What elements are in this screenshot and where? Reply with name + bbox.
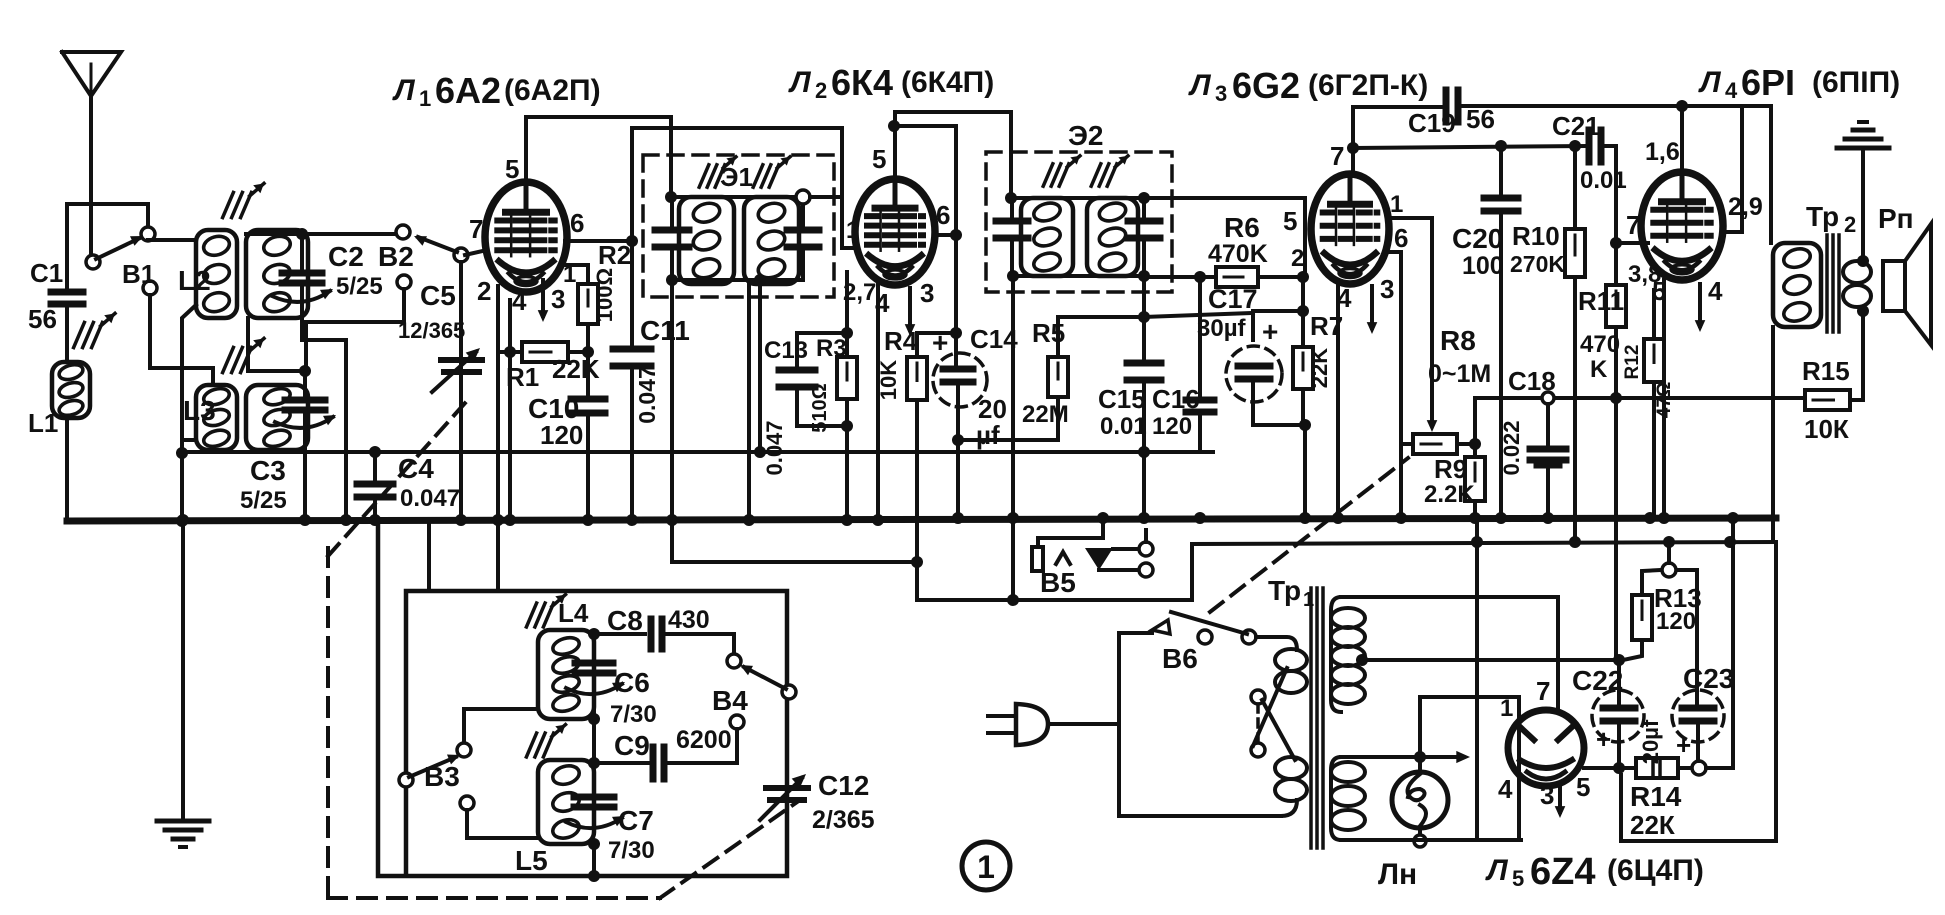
wire B3 upper throw — [464, 709, 538, 743]
Э1 left capacitor — [655, 227, 689, 234]
wire R7 bottom to bus — [1303, 425, 1307, 517]
svg-text:0~1M: 0~1M — [1428, 360, 1491, 388]
svg-text:C7: C7 — [618, 805, 654, 836]
resistor R5 22M — [1058, 317, 1142, 357]
Э1 top wire — [671, 195, 803, 199]
wire tap to tube2 grid — [810, 195, 842, 199]
svg-text:1: 1 — [419, 86, 431, 111]
speaker box and horn — [1883, 261, 1905, 311]
svg-text:30µf: 30µf — [1197, 315, 1247, 342]
wire L2 primary bottom — [182, 305, 196, 453]
svg-text:2: 2 — [1844, 212, 1856, 237]
wire L1 to bus — [65, 418, 69, 521]
pin 4 heater arrow — [1698, 284, 1702, 326]
junction L4 bottom — [588, 713, 600, 725]
switch B6 — [1198, 630, 1212, 644]
resistor R15 10K — [1805, 390, 1850, 410]
svg-text:5/25: 5/25 — [240, 487, 287, 514]
Э2 right capacitor — [1128, 218, 1160, 225]
wire C11 bottom — [630, 368, 634, 521]
pilot lamp Лн — [1392, 772, 1448, 828]
wire Tp2 bottom down — [1771, 327, 1775, 542]
pin 5 wire top — [524, 117, 528, 182]
capacitor C16 — [1198, 277, 1202, 398]
hatch arrow L4 — [526, 603, 536, 627]
svg-text:6К4: 6К4 — [831, 62, 893, 103]
pin1-4 heater wire — [1420, 697, 1519, 839]
svg-text:120: 120 — [540, 420, 583, 450]
svg-text:C3: C3 — [250, 455, 286, 486]
svg-text:3: 3 — [551, 284, 565, 314]
capacitor C2 trimmer — [300, 234, 304, 271]
Tp1 primary upper coil — [1275, 649, 1307, 671]
wire C14 bottom to bus — [956, 384, 960, 521]
svg-text:R3: R3 — [816, 335, 847, 362]
wire antenna branch — [67, 204, 148, 228]
resistor R1 22K — [508, 300, 512, 352]
svg-text:Тр: Тр — [1806, 201, 1839, 232]
wire bus drop right — [1731, 517, 1735, 768]
Э2 left capacitor — [996, 218, 1028, 225]
dashed gang diagonal to C12 — [660, 800, 800, 898]
dashed gang vertical — [326, 548, 330, 898]
grid line to C21 — [1353, 146, 1585, 148]
capacitor C1 — [51, 289, 83, 296]
B+ wires right loop — [1706, 766, 1733, 770]
trimmer C7 — [588, 757, 600, 769]
svg-text:C12: C12 — [818, 770, 869, 801]
capacitor C22 — [1592, 690, 1644, 742]
svg-text:+: + — [1676, 730, 1691, 760]
dashed link B6 to R8 — [1210, 458, 1408, 612]
heater line with arrow — [1341, 755, 1458, 759]
wire R5 bottom — [958, 397, 1058, 440]
svg-text:Л: Л — [1698, 66, 1722, 99]
tube2 pin lines to bus — [747, 284, 751, 520]
wire pin2 to grid line — [1301, 277, 1305, 311]
svg-text:4: 4 — [1498, 774, 1513, 804]
svg-text:C15: C15 — [1098, 384, 1146, 414]
hatch arrows Э1 — [699, 165, 709, 187]
svg-text:Л: Л — [1485, 854, 1509, 887]
pin 1 stub / resistor R2 — [563, 265, 588, 284]
svg-text:C2: C2 — [328, 241, 364, 272]
anode wire to Э2 — [895, 112, 1011, 198]
svg-text:6: 6 — [570, 208, 584, 238]
wire R3 bottom to bus — [845, 426, 849, 521]
capacitor C13 — [797, 333, 847, 368]
capacitor C20 — [1499, 146, 1503, 196]
svg-text:1: 1 — [1390, 191, 1403, 218]
svg-text:Рп: Рп — [1878, 203, 1914, 234]
svg-text:7/30: 7/30 — [610, 701, 657, 728]
svg-text:3: 3 — [1215, 81, 1227, 106]
wire pin2 into box — [496, 521, 500, 591]
Э1 tap circle — [796, 190, 810, 204]
svg-text:1: 1 — [1500, 695, 1513, 722]
switch B3 — [457, 743, 471, 757]
rectifier tube U5 Л5 — [1508, 710, 1584, 786]
speaker voice coil — [1843, 261, 1871, 283]
wire C4 top — [373, 452, 377, 482]
svg-text:C1: C1 — [30, 258, 63, 288]
svg-text:Л: Л — [1188, 69, 1212, 102]
svg-text:7: 7 — [1626, 210, 1640, 240]
svg-text:12/365: 12/365 — [398, 318, 465, 343]
pin 3 heater arrow — [1370, 286, 1374, 328]
svg-text:0.047: 0.047 — [400, 485, 460, 512]
hatch arrow L3 — [223, 347, 234, 372]
wire B2 pole down (C5 line) — [459, 262, 463, 521]
capacitor C9 — [594, 761, 650, 765]
svg-text:R9: R9 — [1434, 454, 1467, 484]
svg-text:7: 7 — [469, 214, 483, 244]
svg-text:C9: C9 — [614, 730, 650, 761]
capacitor C23 — [1672, 690, 1724, 742]
B+ output row — [1584, 766, 1619, 770]
svg-text:R14: R14 — [1630, 781, 1682, 812]
Tp1 HV secondary coil — [1331, 597, 1341, 712]
svg-text:(6К4П): (6К4П) — [901, 66, 994, 99]
wire Э2 right bottom to C15 — [1142, 276, 1146, 317]
svg-text:C21: C21 — [1552, 111, 1600, 141]
inductor L3 (pair) — [196, 385, 237, 450]
wire antenna down — [89, 96, 93, 258]
wire R6 feed — [1144, 275, 1216, 279]
capacitor C19 — [1443, 90, 1450, 122]
svg-text:C19: C19 — [1408, 108, 1456, 138]
svg-text:В5: В5 — [1040, 567, 1076, 598]
wire B3 lower throw — [467, 810, 538, 838]
svg-text:2.2K: 2.2K — [1424, 481, 1475, 508]
svg-text:4: 4 — [1708, 276, 1723, 306]
HV center tap wire — [1356, 654, 1368, 666]
dashed gang bottom — [328, 896, 660, 900]
svg-text:22K: 22K — [1307, 348, 1332, 388]
wire Э1 left bottom to bus — [670, 280, 674, 521]
tube U4 Л4 — [1641, 172, 1723, 280]
svg-text:R11: R11 — [1578, 286, 1624, 316]
svg-text:R8: R8 — [1440, 325, 1476, 356]
wire R2 bottom — [586, 324, 590, 352]
pin 5 wire — [1662, 280, 1666, 517]
wire pin6 node to tube2 grid — [632, 128, 856, 248]
svg-text:C13: C13 — [764, 337, 808, 364]
svg-text:B1: B1 — [122, 259, 155, 289]
svg-text:C18: C18 — [1508, 366, 1556, 396]
antenna — [62, 52, 121, 96]
wire pin4 to bus — [876, 284, 880, 521]
wire ground drop — [1475, 517, 1479, 840]
Э2 left coil — [1021, 198, 1073, 276]
svg-text:3: 3 — [1540, 780, 1554, 810]
svg-text:1: 1 — [846, 217, 859, 244]
wire R15 to speaker — [1850, 311, 1863, 400]
svg-text:L5: L5 — [515, 845, 548, 876]
svg-text:R15: R15 — [1802, 356, 1850, 386]
svg-text:µf: µf — [976, 420, 1000, 450]
svg-text:C23: C23 — [1683, 663, 1734, 694]
svg-text:5/25: 5/25 — [336, 273, 383, 300]
dashed gang link to C5 — [328, 402, 466, 556]
wire R4 bottom through bus to switch line — [917, 400, 1192, 600]
wire plug lower to Tp1 — [1119, 724, 1281, 816]
svg-text:0.047: 0.047 — [634, 366, 660, 424]
svg-text:0.01: 0.01 — [1100, 413, 1147, 440]
trimmer C6 — [588, 628, 600, 640]
svg-text:6: 6 — [936, 200, 950, 230]
svg-text:20µf: 20µf — [1638, 719, 1663, 764]
pin 7 junction — [1610, 237, 1622, 249]
svg-text:R10: R10 — [1512, 221, 1560, 251]
tube U3 Л3 — [1311, 174, 1389, 284]
IF transformer Э2 dashed box — [986, 152, 1172, 292]
Tp2 primary coil — [1773, 243, 1821, 327]
Э2 right coil — [1087, 198, 1138, 276]
Э2 bottom junction — [1012, 274, 1144, 278]
svg-text:2/365: 2/365 — [812, 806, 875, 834]
svg-text:1: 1 — [563, 261, 576, 288]
svg-text:430: 430 — [668, 606, 710, 634]
resistor R3 510 — [837, 357, 857, 399]
wire L3 left to AVC — [180, 453, 184, 521]
svg-text:C5: C5 — [420, 280, 456, 311]
pin 6 wire — [1387, 252, 1401, 517]
hatch arrows Э2 — [1043, 164, 1053, 186]
wire C21 to pin7 U4 — [1604, 146, 1616, 243]
capacitor C18 — [1542, 392, 1554, 404]
capacitor C3 trimmer — [303, 371, 307, 398]
svg-text:5: 5 — [1512, 866, 1524, 891]
wire Э1 right bottom to AVC — [758, 280, 762, 452]
resistor R12 47 — [1644, 339, 1664, 382]
heater bottom line — [1341, 838, 1521, 842]
wire jack top to line — [1144, 530, 1148, 542]
Э1 right coil — [744, 197, 799, 284]
anode top line to Tp2 — [1682, 106, 1771, 243]
wire bus to box left — [427, 521, 431, 591]
capacitor C10 — [586, 352, 590, 396]
svg-text:C16: C16 — [1152, 384, 1200, 414]
band unit box — [378, 523, 787, 876]
wire Э2 left bottom down — [1011, 276, 1015, 600]
pin 6 wire — [565, 239, 632, 243]
pin 2,9 anode wire — [1723, 106, 1742, 232]
svg-text:K: K — [1590, 356, 1608, 383]
svg-text:C8: C8 — [607, 605, 643, 636]
cathode wire down — [845, 272, 849, 333]
svg-text:120: 120 — [1152, 413, 1192, 440]
Э2 secondary top to grid — [1144, 198, 1305, 277]
resistor R4 10K — [917, 333, 956, 357]
capacitor C21 — [1586, 130, 1593, 162]
svg-text:R12: R12 — [1622, 345, 1643, 380]
svg-text:L2: L2 — [178, 265, 211, 296]
svg-text:6: 6 — [1394, 223, 1408, 253]
svg-text:2: 2 — [1291, 245, 1304, 272]
svg-text:L1: L1 — [28, 408, 58, 438]
svg-text:Л: Л — [392, 74, 416, 107]
svg-text:2: 2 — [815, 78, 827, 103]
variable capacitor C12 — [766, 785, 808, 791]
svg-text:0.01: 0.01 — [1580, 167, 1627, 194]
pin 1,6 wire top — [1680, 106, 1684, 172]
feedback line up — [1475, 398, 1805, 444]
variable capacitor C5 — [441, 357, 482, 363]
svg-text:(6Г2П-К): (6Г2П-К) — [1308, 69, 1428, 102]
Э1 left coil — [679, 197, 734, 284]
Tp1 LV heater secondary — [1331, 757, 1341, 840]
wire L3 top — [248, 369, 305, 373]
svg-text:C20: C20 — [1452, 223, 1503, 254]
svg-text:56: 56 — [1466, 104, 1495, 134]
svg-text:5: 5 — [872, 144, 886, 174]
Э1 bottom junction — [672, 278, 760, 282]
resistor R13 120 — [1632, 595, 1652, 640]
svg-text:0.047: 0.047 — [762, 420, 787, 475]
svg-text:5: 5 — [1283, 206, 1297, 236]
capacitor C17 electrolytic — [1253, 311, 1303, 340]
top wire to IF1 — [526, 117, 671, 197]
svg-text:1: 1 — [977, 849, 995, 885]
svg-text:6200: 6200 — [676, 726, 732, 754]
capacitor C8 — [594, 632, 645, 636]
Tp1 core lines — [1309, 588, 1313, 848]
resistor R7 2.2K — [1293, 347, 1313, 389]
mains plug — [988, 714, 1016, 718]
switch B1 — [86, 255, 100, 269]
wire C16 bottom — [1198, 414, 1202, 452]
svg-text:6G2: 6G2 — [1232, 65, 1300, 106]
IF transformer Э1 dashed box — [643, 155, 834, 297]
resistor R11 470K — [1606, 285, 1626, 327]
svg-text:22K: 22K — [552, 354, 600, 384]
svg-text:4: 4 — [512, 286, 527, 316]
capacitor C14 electrolytic — [954, 333, 958, 366]
svg-text:C17: C17 — [1208, 284, 1258, 314]
wire B2 throw down — [306, 289, 404, 369]
pin 5 wire top — [893, 112, 897, 179]
coupling line C19 row — [1353, 105, 1441, 109]
hatch arrow L5 — [526, 733, 536, 757]
wire L3 bottom left — [182, 440, 196, 453]
line y600 to B6 area — [1192, 542, 1776, 600]
wire L2sec to L3sec — [246, 318, 250, 371]
AVC line (long horizontal) — [182, 450, 1213, 454]
capacitor C15 — [1127, 360, 1161, 367]
svg-text:C6: C6 — [614, 667, 650, 698]
switch B2 — [396, 225, 410, 239]
pin 6 wire — [934, 233, 956, 237]
svg-text:C22: C22 — [1572, 665, 1623, 696]
svg-text:Тр: Тр — [1268, 575, 1301, 606]
inductor L1 — [52, 362, 90, 418]
svg-text:22M: 22M — [1022, 401, 1069, 428]
svg-text:C11: C11 — [640, 315, 690, 346]
HV top wire to rectifier anode — [1341, 597, 1558, 712]
tube U2 Л2 — [855, 179, 935, 285]
hatch arrow L1 — [74, 322, 85, 347]
wire C6 bottom — [592, 675, 596, 719]
pin 7 wire top — [1351, 107, 1355, 176]
svg-text:6PI: 6PI — [1741, 62, 1795, 103]
svg-text:(6А2П): (6А2П) — [504, 74, 601, 107]
svg-text:10К: 10К — [1804, 414, 1849, 444]
switch B4 — [732, 634, 736, 653]
resistor R9 2.2K — [1465, 457, 1485, 501]
wire B6 to plug — [1048, 633, 1152, 724]
pin 1 wire to volume pot — [1387, 218, 1432, 420]
tube U1 Л1 — [485, 182, 567, 292]
hatch arrow L2 — [223, 192, 234, 217]
svg-text:100: 100 — [1462, 252, 1504, 280]
wire C3 bottom to bus — [303, 414, 307, 521]
svg-text:2,9: 2,9 — [1728, 193, 1763, 221]
svg-text:6А2: 6А2 — [435, 70, 501, 111]
Tp1 primary lower coil — [1275, 757, 1307, 779]
cathode wire to bus — [1336, 284, 1340, 517]
ground top right — [1861, 150, 1865, 261]
svg-text:B3: B3 — [424, 761, 460, 792]
svg-text:5: 5 — [1652, 276, 1666, 306]
svg-text:R7: R7 — [1310, 311, 1343, 341]
svg-text:6Z4: 6Z4 — [1530, 851, 1595, 893]
svg-text:Э2: Э2 — [1068, 120, 1104, 151]
svg-text:7/30: 7/30 — [608, 837, 655, 864]
svg-text:3: 3 — [920, 278, 934, 308]
Tp2 core lines — [1825, 235, 1829, 332]
svg-text:56: 56 — [28, 304, 57, 334]
wire L2 top to B2 — [246, 232, 400, 236]
svg-text:1,6: 1,6 — [1645, 138, 1680, 166]
wire C2 bottom routing — [302, 287, 346, 521]
svg-text:Лн: Лн — [1378, 858, 1417, 891]
HV drop junctions — [1471, 536, 1483, 548]
wire right big loop — [1621, 542, 1776, 841]
svg-text:R2: R2 — [598, 240, 631, 270]
ground symbol — [157, 819, 209, 824]
capacitor C11 — [630, 128, 634, 347]
svg-text:B2: B2 — [378, 241, 414, 272]
coil L4 — [538, 630, 594, 719]
svg-text:B4: B4 — [712, 685, 748, 716]
pin 3 heater arrow — [541, 280, 545, 316]
wire B1 to L3 — [150, 295, 213, 385]
circled 1 mark — [962, 842, 1010, 890]
main ground bus — [67, 518, 1776, 521]
wire pin6 screen line — [894, 126, 956, 333]
svg-text:2: 2 — [477, 276, 491, 306]
svg-text:Л: Л — [788, 66, 812, 99]
wire pin2 down — [496, 286, 500, 521]
svg-text:Э1: Э1 — [720, 162, 753, 192]
wire C10 bottom — [586, 415, 590, 521]
svg-text:100Ω: 100Ω — [592, 268, 617, 322]
svg-text:L3: L3 — [183, 395, 216, 426]
svg-text:270K: 270K — [1510, 251, 1565, 277]
wire R1 left down — [508, 352, 512, 521]
svg-text:120: 120 — [1656, 608, 1696, 635]
wire L5 bottom — [588, 838, 600, 850]
svg-text:7: 7 — [1536, 676, 1550, 706]
svg-text:5: 5 — [505, 154, 519, 184]
wire switch feed lines — [672, 521, 917, 562]
svg-text:(6ПIП): (6ПIП) — [1812, 66, 1900, 99]
svg-text:L4: L4 — [558, 598, 589, 628]
wire C4 bottom — [373, 499, 377, 521]
svg-text:10K: 10K — [876, 360, 901, 400]
Э1 right capacitor — [787, 227, 819, 234]
